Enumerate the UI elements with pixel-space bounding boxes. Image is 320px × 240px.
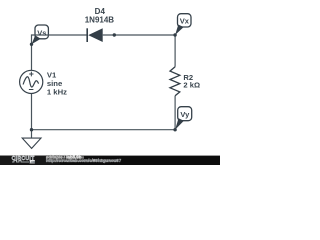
- node Vy flag: [173, 107, 191, 132]
- svg-text:1 kHz: 1 kHz: [47, 87, 67, 96]
- wire right rail upper (Vx corner to R2 top): [174, 34, 176, 66]
- voltage source V1: [20, 70, 43, 93]
- node Vx flag: [173, 14, 191, 37]
- junction dot at ground node on bottom rail: [30, 128, 33, 131]
- svg-text:LAB: LAB: [29, 160, 36, 164]
- wire bottom rail: [32, 129, 176, 131]
- labels layer: [12, 7, 200, 164]
- watermark logo waveform: [12, 160, 29, 162]
- resistor R2 zigzag: [170, 67, 180, 96]
- V1 sine wave symbol: [23, 77, 38, 87]
- svg-text:1N914B: 1N914B: [85, 15, 115, 24]
- V1 plus polarity mark: [29, 72, 33, 77]
- junction dot on top rail right of D4: [113, 33, 116, 36]
- wire left rail lower (V1 minus terminal to ground junction): [31, 93, 33, 130]
- svg-text:2 kΩ: 2 kΩ: [183, 81, 200, 90]
- wire top rail left (Vs corner to diode D4 cathode): [32, 34, 87, 36]
- watermark bar: [0, 156, 220, 165]
- wire left rail upper (top-left corner down to V1 plus terminal): [31, 34, 33, 70]
- wire right rail lower (R2 bottom to Vy corner): [174, 96, 176, 130]
- svg-text:Vs: Vs: [37, 28, 46, 37]
- node Vy attachment dot: [173, 128, 176, 131]
- node Vs flag pointer: [32, 35, 41, 44]
- wire ground stub: [31, 130, 33, 138]
- node Vx flag pointer: [175, 25, 184, 35]
- ground: [22, 138, 41, 148]
- svg-text:Vy: Vy: [180, 110, 190, 119]
- wire top rail right (diode D4 anode to Vx corner): [103, 34, 175, 36]
- node Vy flag pointer: [175, 118, 184, 130]
- node Vs flag box: [35, 25, 48, 39]
- svg-text:Vx: Vx: [180, 16, 190, 25]
- V1 minus polarity mark: [29, 89, 34, 91]
- node Vs attachment dot: [30, 43, 33, 46]
- svg-text:http://circuitlab.com/c/#9h2gu: http://circuitlab.com/c/#9h2gunou67: [46, 158, 122, 163]
- node Vx attachment dot: [173, 33, 176, 36]
- watermark logo LAB box: [30, 160, 35, 163]
- diode D4 (cathode bar and anode triangle): [87, 28, 103, 42]
